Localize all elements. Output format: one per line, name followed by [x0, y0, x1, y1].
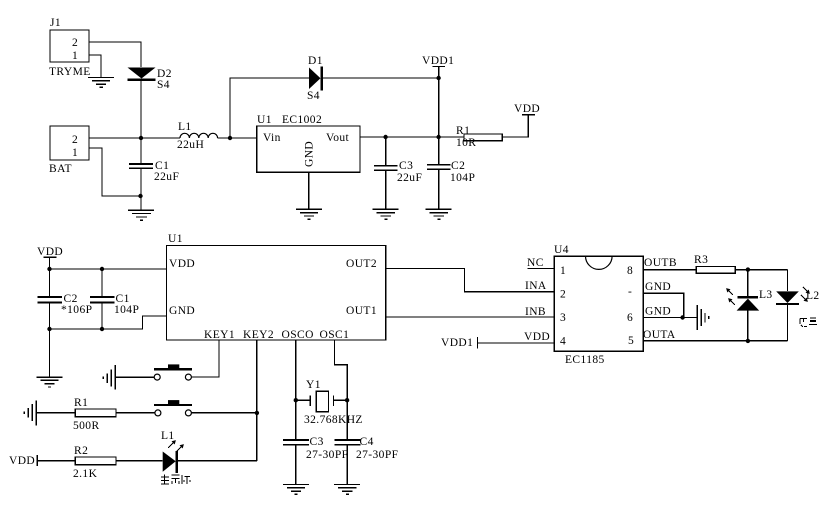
wire R1 to VDD	[502, 115, 528, 137]
resistor R1 bottom	[73, 397, 116, 432]
resistor R2	[73, 445, 116, 480]
svg-text:32.768KHZ: 32.768KHZ	[304, 414, 363, 426]
power flag VDD bottom left	[37, 246, 63, 269]
ground rotated at R1 row	[24, 401, 36, 426]
capacitor C1	[129, 160, 179, 183]
svg-text:KEY2: KEY2	[243, 329, 274, 341]
svg-text:EC1185: EC1185	[565, 354, 605, 366]
capacitor C2 bottom	[38, 293, 93, 316]
svg-text:BAT: BAT	[49, 163, 72, 175]
diode D2	[128, 68, 172, 92]
svg-text:22uF: 22uF	[397, 172, 422, 184]
svg-text:Y1: Y1	[306, 379, 321, 391]
power flag VDD top right	[514, 103, 540, 115]
wire button1 to ground	[124, 376, 154, 378]
svg-text:OSCO: OSCO	[282, 329, 314, 341]
label OUTB / wire pin8 to R3	[643, 257, 696, 270]
svg-text:27-30PF: 27-30PF	[306, 449, 348, 461]
power flag VDD at R2	[9, 455, 37, 467]
node L1 right	[228, 136, 232, 140]
svg-text:NC: NC	[527, 257, 544, 269]
pin NC stub	[527, 257, 554, 269]
capacitor C2	[427, 160, 475, 184]
svg-text:1: 1	[72, 50, 78, 62]
svg-text:*106P: *106P	[61, 304, 92, 316]
svg-text:VDD: VDD	[524, 331, 550, 343]
svg-text:U4: U4	[554, 244, 569, 256]
svg-text:GND: GND	[304, 141, 316, 167]
LED L3	[726, 288, 772, 311]
node rail/C1	[100, 327, 104, 331]
svg-text:OUTB: OUTB	[644, 257, 677, 269]
svg-text:U1: U1	[168, 233, 183, 245]
node R3/L3	[746, 267, 750, 271]
svg-text:Vout: Vout	[326, 132, 350, 144]
wire C2 to ground	[438, 169, 440, 209]
wire BAT pin2 to node	[89, 137, 180, 139]
node VDD1/D1	[436, 76, 440, 80]
wire C3 to ground	[385, 170, 387, 209]
node GND pins	[680, 315, 684, 319]
svg-text:1: 1	[72, 147, 78, 159]
wire VDD1 down to Vout rail	[438, 78, 440, 137]
capacitor C1 bottom	[90, 293, 139, 316]
svg-text:VDD1: VDD1	[422, 55, 454, 67]
wire C1 bottom to ground node	[140, 169, 142, 197]
ground under U1	[296, 209, 322, 219]
svg-text:VDD: VDD	[169, 258, 195, 270]
svg-text:VDD1: VDD1	[441, 337, 473, 349]
power flag VDD1	[422, 55, 454, 78]
svg-text:GND: GND	[645, 281, 671, 293]
ground bottom left	[37, 377, 63, 387]
ground under C1	[128, 196, 154, 220]
svg-text:2: 2	[72, 37, 78, 49]
ground rotated at U4	[697, 305, 708, 330]
ground under C4 bottom	[334, 485, 360, 495]
ground under C3 bottom	[283, 485, 309, 495]
wire OSC1 stub	[335, 340, 348, 440]
wire U1 GND to ground	[308, 172, 310, 209]
label lamp (chinese) at L2	[800, 318, 817, 327]
inductor L1	[177, 121, 218, 151]
wire pin6 GND	[643, 306, 697, 318]
node L3/OUTA	[746, 339, 750, 343]
wire OUT1 to INB	[386, 316, 555, 318]
ground under J1	[88, 78, 114, 88]
wire R2 to L1 LED	[116, 460, 163, 462]
regulator U1 EC1002	[257, 114, 360, 172]
wire J1 pin1 to ground	[89, 55, 101, 77]
wire KEY2 stub down	[256, 340, 258, 461]
ground under C2	[426, 209, 452, 219]
svg-text:EC1002: EC1002	[282, 114, 322, 126]
wire OUT2 to INA	[386, 269, 555, 292]
svg-text:27-30PF: 27-30PF	[356, 449, 398, 461]
capacitor C4 bottom	[335, 436, 399, 461]
IC U4 EC1185	[554, 244, 643, 366]
wire C4 to ground	[346, 445, 348, 485]
wire node to L2 top	[787, 270, 789, 291]
svg-text:VDD: VDD	[9, 455, 35, 467]
svg-text:L1: L1	[178, 121, 192, 133]
svg-text:2: 2	[560, 289, 566, 301]
svg-text:Vin: Vin	[263, 132, 281, 144]
LED L2	[776, 287, 819, 304]
svg-text:INB: INB	[525, 306, 546, 318]
label indicator lamp (chinese)	[161, 475, 190, 485]
wire KEY1 stub	[192, 340, 220, 377]
svg-text:VDD: VDD	[37, 246, 63, 258]
svg-text:GND: GND	[645, 306, 671, 318]
connector J1	[49, 17, 91, 78]
IC U1 main	[167, 233, 386, 341]
wire Vout to R1	[360, 136, 464, 138]
svg-text:6: 6	[627, 312, 633, 324]
svg-text:U1: U1	[257, 114, 272, 126]
wire node down to C1	[140, 138, 142, 164]
wire J1 pin2 to D2	[89, 42, 141, 67]
wire C2 branch	[49, 269, 51, 297]
resistor R1 top	[456, 125, 502, 149]
wire C2 bottom rail	[50, 303, 167, 329]
svg-text:C3: C3	[310, 436, 324, 448]
connector BAT	[49, 126, 89, 175]
svg-text:22uF: 22uF	[154, 171, 179, 183]
node KEY2/button2	[255, 411, 259, 415]
wire L1 to U1 Vin	[218, 137, 257, 139]
svg-text:INA: INA	[525, 280, 547, 292]
wire C3 to ground	[295, 445, 297, 485]
svg-text:L2: L2	[806, 290, 820, 302]
pushbutton S1	[154, 364, 192, 380]
svg-text:VDD: VDD	[514, 103, 540, 115]
svg-text:OUT1: OUT1	[346, 305, 377, 317]
svg-text:L1: L1	[161, 430, 175, 442]
ground under C3	[373, 209, 399, 219]
power flag VDD1 at U4	[441, 337, 478, 349]
svg-text:OSC1: OSC1	[320, 329, 350, 341]
node rail/C2	[47, 327, 51, 331]
capacitor C3 bottom	[283, 436, 348, 461]
wire pin5 OUTA	[643, 329, 788, 341]
svg-text:500R: 500R	[73, 420, 100, 432]
wire ground to R1	[36, 412, 75, 414]
wire BAT pin1 to ground node	[89, 148, 141, 196]
wire L2 to OUTA	[787, 304, 789, 341]
svg-text:2.1K: 2.1K	[73, 468, 98, 480]
diode D1	[307, 55, 323, 102]
svg-text:R2: R2	[74, 445, 88, 457]
node VDD/C2	[47, 267, 51, 271]
wire down to ground	[49, 329, 51, 377]
svg-text:KEY1: KEY1	[204, 329, 235, 341]
capacitor C3	[374, 160, 422, 184]
wire VDD rail to U1 VDD pin	[50, 268, 167, 270]
wire D1 cathode to VDD1 node	[323, 77, 439, 79]
wire L3 to OUTA	[747, 311, 749, 341]
svg-text:C4: C4	[360, 436, 374, 448]
svg-text:-: -	[628, 286, 632, 298]
wire node up to D1 anode	[230, 78, 309, 138]
svg-text:J1: J1	[50, 17, 61, 29]
svg-text:GND: GND	[169, 305, 195, 317]
svg-text:2: 2	[72, 134, 78, 146]
wire button2 to KEY2 net	[192, 412, 257, 414]
wire VDD1 to pin4	[478, 342, 555, 344]
wire pin7 GND	[643, 281, 684, 318]
svg-text:L3: L3	[759, 289, 773, 301]
svg-text:104P: 104P	[450, 172, 475, 184]
resistor R3	[694, 254, 735, 273]
svg-text:22uH: 22uH	[177, 139, 204, 151]
svg-text:10R: 10R	[456, 137, 476, 149]
svg-text:C3: C3	[399, 160, 413, 172]
svg-text:TRYME: TRYME	[49, 66, 91, 78]
node at C1 top	[139, 136, 143, 140]
wire R3 to LED node	[735, 269, 787, 271]
wire down to C3	[385, 137, 387, 166]
svg-text:C2: C2	[451, 160, 465, 172]
svg-text:3: 3	[560, 312, 566, 324]
svg-text:1: 1	[560, 265, 566, 277]
pushbutton S2	[154, 400, 192, 416]
wire L1 cathode to KEY2 net	[178, 460, 257, 462]
wire C1 branch	[101, 269, 103, 297]
svg-text:4: 4	[560, 336, 566, 348]
node crystal right	[345, 398, 349, 402]
svg-text:S4: S4	[307, 90, 320, 102]
node VDD/C1	[100, 267, 104, 271]
wire OSCO stub	[295, 340, 297, 440]
svg-text:R3: R3	[694, 254, 708, 266]
svg-text:5: 5	[628, 335, 634, 347]
ground rotated at button1	[103, 365, 124, 390]
wire D2 cathode down to BAT node	[140, 80, 142, 138]
crystal Y1	[296, 379, 363, 426]
wire VDD to R2	[37, 460, 75, 462]
svg-text:S4: S4	[157, 79, 170, 91]
node at ground	[138, 194, 142, 198]
svg-text:8: 8	[627, 265, 633, 277]
wire R1 to button2	[116, 412, 155, 414]
LED L1	[161, 430, 184, 473]
svg-text:D1: D1	[308, 55, 323, 67]
svg-text:OUTA: OUTA	[643, 329, 676, 341]
svg-text:R1: R1	[74, 397, 88, 409]
node C2 top	[436, 135, 440, 139]
wire node down to L3	[747, 270, 749, 297]
node C3 top	[383, 135, 387, 139]
svg-text:OUT2: OUT2	[346, 258, 377, 270]
node crystal left	[294, 398, 298, 402]
svg-text:104P: 104P	[114, 304, 139, 316]
wire down to C2	[438, 137, 440, 165]
